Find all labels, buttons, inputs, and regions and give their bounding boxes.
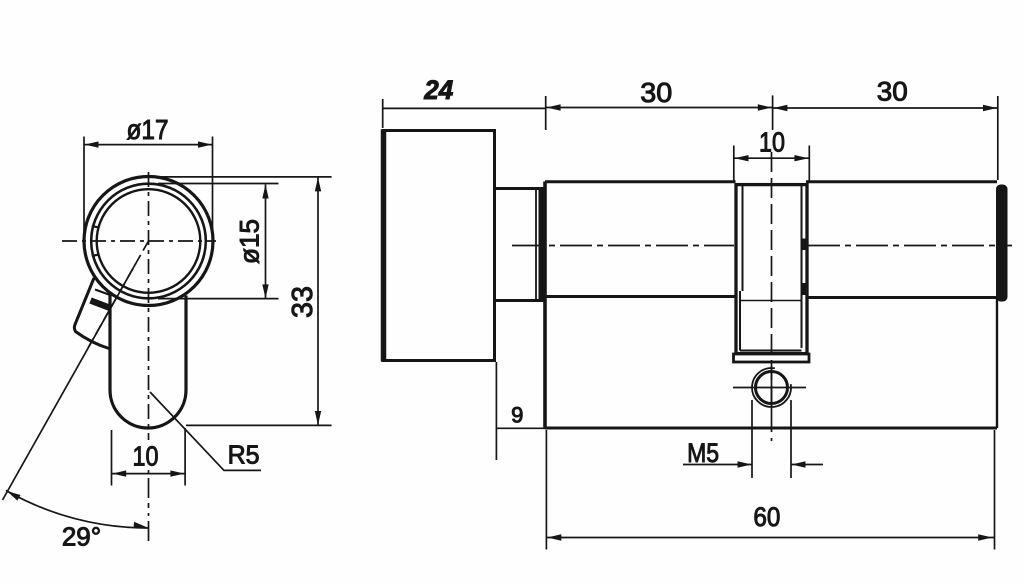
cam bottom plate: [734, 354, 810, 362]
dimension 60 extension left: [545, 430, 547, 550]
vertical centerline of front view lower part: [148, 470, 150, 541]
svg-text:33: 33: [287, 286, 319, 318]
dimension Ø17 line: [84, 144, 213, 146]
cam vertical centerline: [771, 152, 773, 441]
33 arrow down: [315, 411, 321, 425]
M5 crosshair horizontal: [733, 387, 806, 389]
dimension 10 (cam) extension right: [808, 146, 810, 182]
slanted centerline through tab: [89, 241, 149, 347]
barrel horizontal centerline right part: [808, 245, 1012, 247]
stem body (lower part of front view): [110, 294, 186, 429]
dimension 24 line: [383, 107, 546, 109]
dimension 10 (stem width) extension left: [111, 430, 113, 486]
dimension 30 left line: [546, 107, 773, 109]
29 deg arc arrow left: [7, 491, 21, 501]
center extension line (cam axis): [772, 95, 774, 130]
barrel horizontal centerline left part: [512, 245, 734, 247]
knob outer circle Ø17: [84, 177, 213, 306]
svg-text:ø15: ø15: [234, 219, 264, 264]
flange bar (thick black): [539, 189, 546, 302]
dimension Ø17 extension line left: [83, 137, 85, 233]
svg-text:29°: 29°: [62, 522, 101, 552]
dimension 10 (cam) extension left: [733, 146, 735, 182]
neck top edge: [495, 187, 545, 190]
rim notch tick upper: [92, 226, 99, 228]
dimension 10 (cam) line: [734, 157, 809, 159]
rim notch tick lower: [92, 254, 99, 256]
barrel bottom edge right segment: [806, 296, 997, 299]
body right edge: [996, 297, 998, 429]
33 arrow up: [315, 177, 321, 191]
dimension 30 right line: [773, 107, 998, 109]
extension line right end: [997, 96, 999, 180]
10 cam arrow left: [735, 155, 749, 161]
dimension 33 bottom tangent line: [186, 424, 332, 426]
dimension Ø15 line: [265, 185, 267, 299]
vertical centerline of front view upper part: [148, 172, 150, 440]
cam right tick lower: [802, 283, 808, 295]
cam right tick upper: [802, 239, 808, 251]
29 deg arc with arrows: [6, 491, 149, 529]
tab band thick: [91, 301, 112, 309]
barrel bottom edge left segment: [545, 295, 736, 298]
barrel top edge left segment: [545, 180, 736, 183]
svg-text:10: 10: [759, 127, 785, 158]
cam inner left line: [742, 185, 744, 291]
M5 dimension left segment: [683, 464, 752, 466]
svg-text:24: 24: [423, 75, 453, 105]
dimension 9 line: [496, 427, 545, 429]
M5 arrow left-pointing: [792, 461, 806, 467]
cam interior step line: [740, 300, 802, 302]
cam outer outline: [736, 185, 807, 354]
knob rim circle Ø15: [91, 184, 206, 299]
extension line between 24 and 30: [545, 96, 547, 130]
M5 extension line right: [790, 400, 792, 478]
neck bottom edge: [495, 299, 545, 302]
svg-text:30: 30: [877, 76, 908, 106]
dimension 60 line: [546, 537, 994, 539]
svg-text:30: 30: [640, 77, 672, 108]
svg-text:M5: M5: [687, 438, 719, 468]
svg-text:R5: R5: [228, 440, 260, 470]
horizontal centerline of front view: [62, 240, 216, 242]
tab band thin: [95, 290, 112, 296]
M5 crosshair vertical: [771, 366, 773, 412]
dimension 10 line: [112, 473, 185, 475]
Ø17 arrow left: [85, 141, 99, 147]
29 deg arc arrow right: [134, 522, 148, 528]
svg-text:ø17: ø17: [127, 114, 169, 145]
cam inner right line: [801, 185, 803, 348]
barrel end cap (thick): [996, 185, 1008, 302]
10 arrow right: [170, 470, 184, 476]
plug inner circle: [97, 189, 201, 293]
tab (nose of knob cap, lower-left): [74, 278, 109, 349]
30 right arrow right: [983, 105, 997, 111]
dimension Ø15 top tangent line: [158, 183, 279, 185]
dimension 33 line: [317, 177, 319, 425]
body bottom edge: [545, 427, 997, 430]
dimension Ø15 bottom tangent line: [158, 298, 279, 300]
30 left arrow left: [547, 104, 561, 110]
M5 thread arc: [752, 368, 791, 407]
barrel top edge right segment: [806, 180, 997, 183]
M5 arrow right-pointing: [738, 461, 752, 467]
dimension 60 extension right: [994, 430, 996, 550]
svg-text:60: 60: [753, 502, 780, 532]
slanted ray for 29 deg angle: [3, 264, 136, 500]
svg-text:10: 10: [133, 441, 159, 472]
Ø17 arrow right: [198, 141, 212, 147]
10 arrow left: [112, 470, 126, 476]
30 right arrow left: [773, 105, 787, 111]
10 cam arrow right: [794, 155, 808, 161]
60 arrow left: [547, 534, 561, 540]
body left edge: [543, 182, 547, 429]
dimension 33 top tangent line: [160, 176, 332, 178]
Ø15 arrow up: [262, 185, 268, 199]
dimension 24 extension line: [382, 99, 384, 128]
Ø15 arrow down: [262, 284, 268, 298]
neck inner line: [535, 189, 537, 300]
30 left arrow right: [758, 104, 772, 110]
60 arrow right: [978, 534, 992, 540]
M5 extension line left: [751, 400, 753, 478]
knob side view rectangle: [383, 131, 495, 361]
cam inner horizontal line: [740, 350, 802, 352]
M5 dimension right segment: [791, 464, 823, 466]
knob left edge thick: [381, 130, 387, 362]
R5 leader line: [150, 392, 261, 470]
M5 screw hole inner circle: [756, 372, 788, 404]
cam inner left lower line: [739, 291, 741, 351]
dimension 9 extension line: [495, 362, 497, 460]
dimension 10 extension right: [184, 428, 186, 486]
svg-text:9: 9: [511, 402, 523, 427]
dimension Ø17 extension line right: [212, 137, 214, 233]
